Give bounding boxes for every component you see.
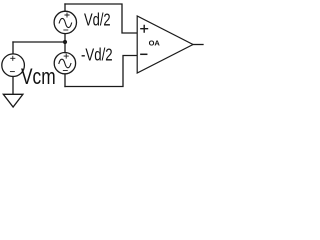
op-amp plus input mark <box>141 25 148 32</box>
wire top rail from Vd/2 source to non-inverting input <box>65 4 137 33</box>
wire stub below -Vd/2 source <box>64 74 66 87</box>
minus mark in Vd/2 source <box>64 29 68 31</box>
wire output <box>193 44 203 46</box>
vsource -Vd/2 <box>54 53 75 74</box>
op-amp U1 triangle <box>137 16 193 73</box>
minus mark in -Vd/2 source <box>63 70 67 72</box>
wire stub below Vd/2 source <box>64 34 66 42</box>
svg-text:-Vd/2: -Vd/2 <box>81 46 113 65</box>
wire bottom rail to inverting riser <box>65 56 137 87</box>
svg-text:Vcm: Vcm <box>21 65 56 90</box>
minus mark in Vcm source <box>10 71 14 73</box>
op-amp minus input mark <box>141 53 147 55</box>
wire middle rail <box>13 41 65 43</box>
plus mark in -Vd/2 source <box>64 54 68 58</box>
svg-text:Vd/2: Vd/2 <box>84 11 111 31</box>
wire stub above Vd/2 source <box>64 4 66 11</box>
node junction dot <box>63 40 67 44</box>
sine in Vd/2 source <box>59 18 71 27</box>
plus mark in Vcm source <box>11 56 15 60</box>
plus mark in Vd/2 source <box>65 13 69 17</box>
wire stub above -Vd/2 source <box>64 42 66 53</box>
wire stub below Vcm source <box>12 77 14 95</box>
ground <box>3 94 23 107</box>
vsource Vcm <box>2 54 25 77</box>
svg-text:OA: OA <box>149 39 161 48</box>
wire stub above Vcm source <box>12 42 14 54</box>
vsource Vd/2 <box>54 11 76 33</box>
sine in -Vd/2 source <box>59 59 71 68</box>
